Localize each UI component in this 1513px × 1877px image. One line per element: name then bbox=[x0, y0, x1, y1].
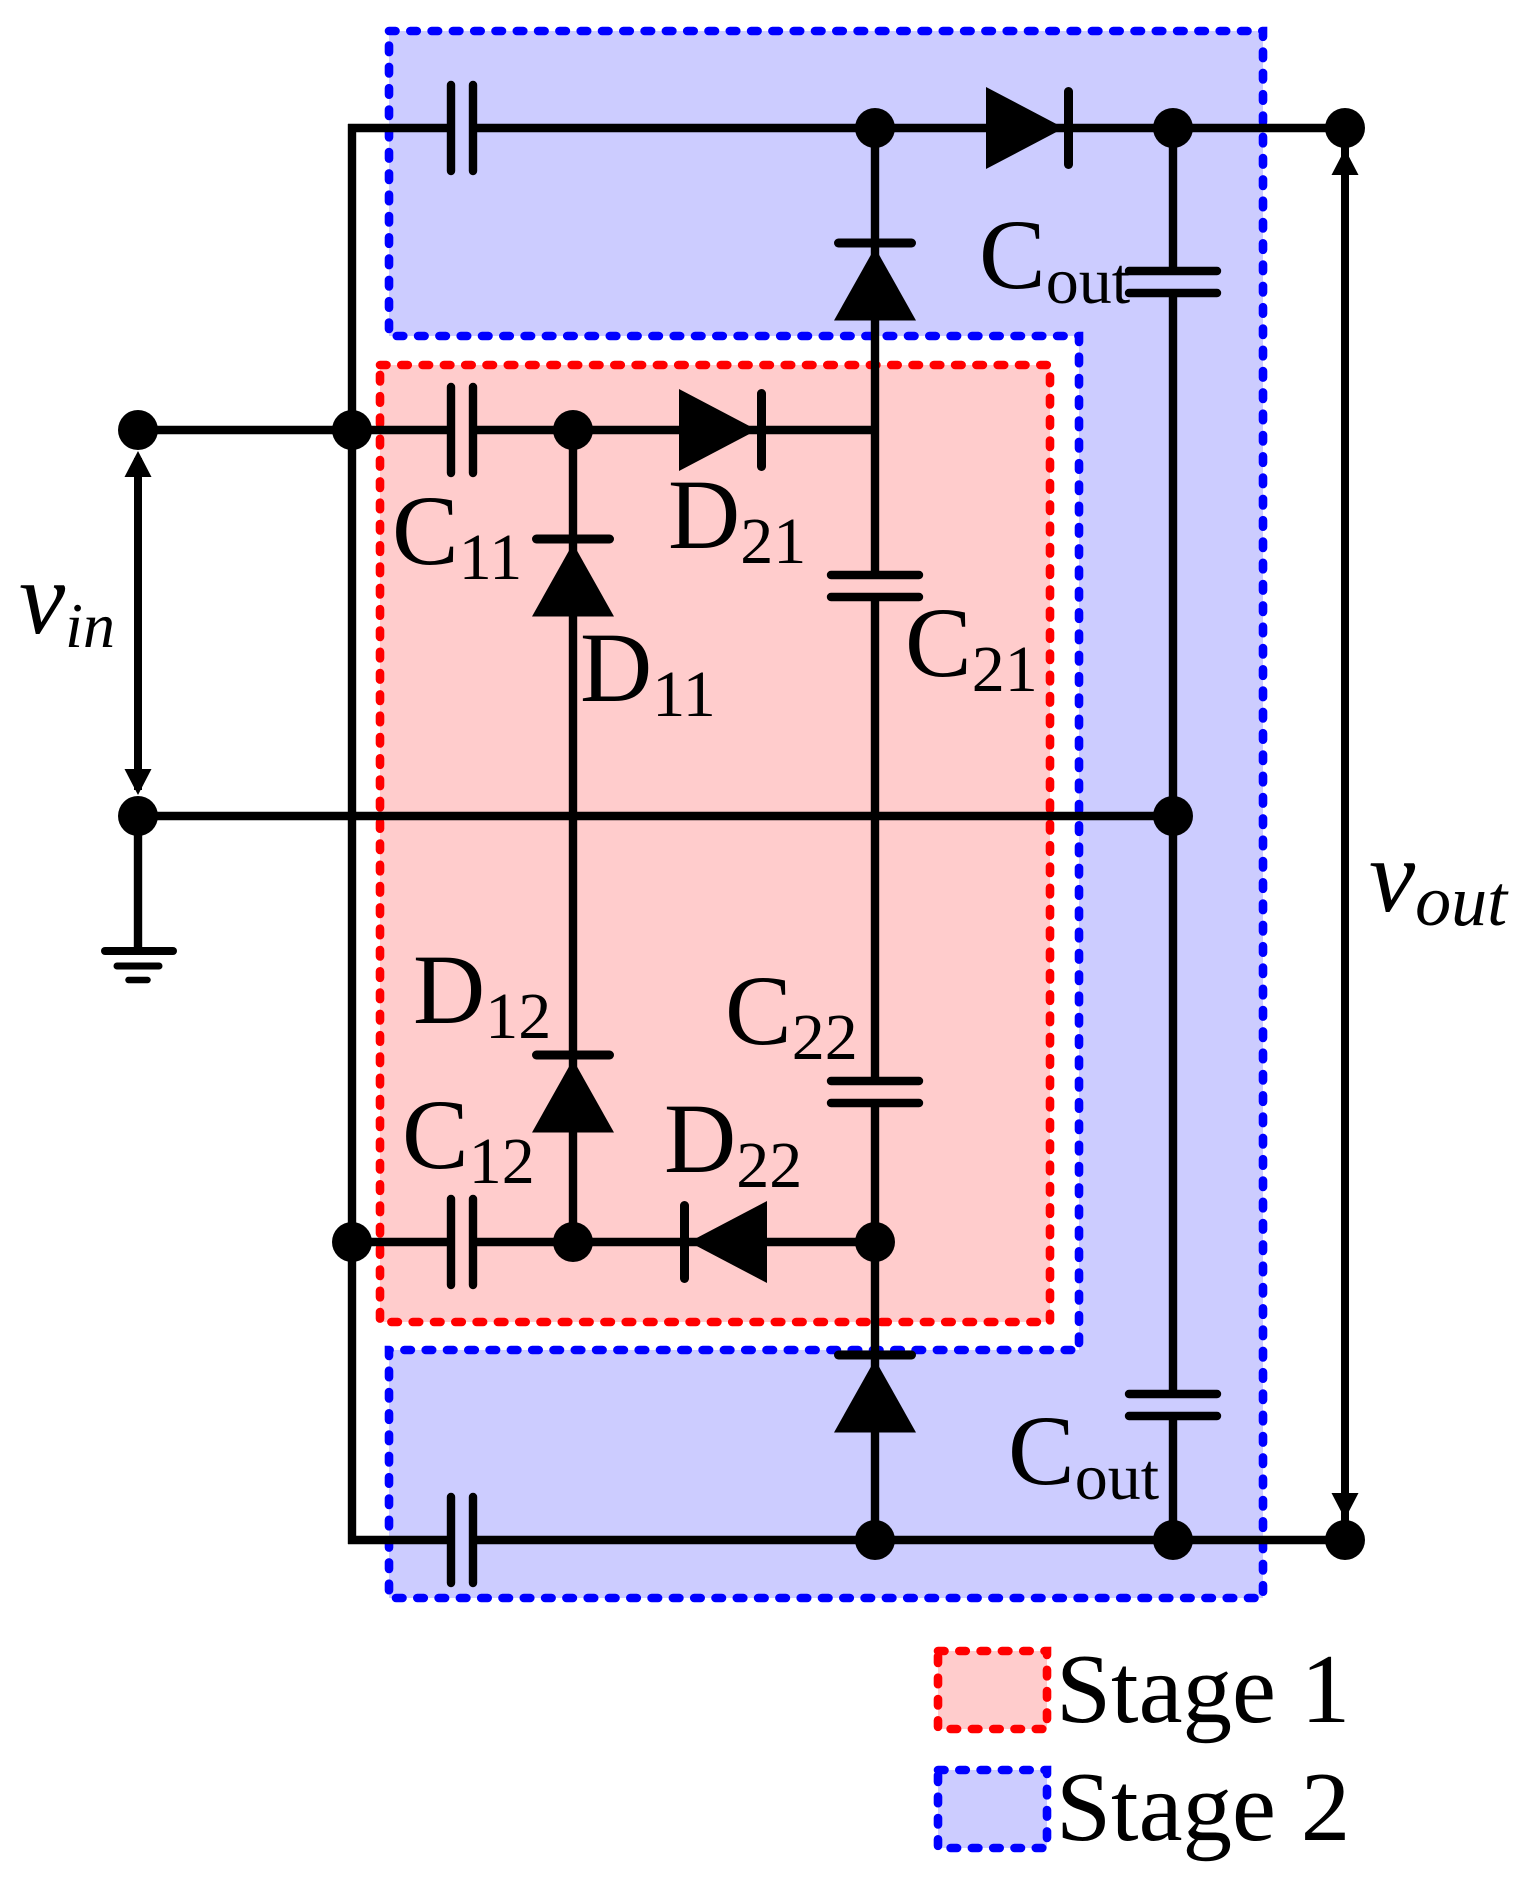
diode D11 bbox=[532, 539, 614, 617]
node C12-D12 junction bbox=[553, 1222, 593, 1262]
diode D12 bbox=[532, 1055, 614, 1133]
node bottom rail vout bbox=[1325, 1520, 1365, 1560]
wire input rail C11 to C21 line bbox=[477, 426, 875, 434]
diode stage2 top pump bbox=[834, 243, 916, 321]
node input bus top bbox=[332, 410, 372, 450]
svg-text:vout: vout bbox=[1369, 819, 1509, 941]
node top rail left bbox=[855, 108, 895, 148]
wire bottom inner rail C12 to node bbox=[477, 1238, 875, 1246]
vout measurement arrowheads bbox=[1332, 149, 1359, 1519]
ground bbox=[105, 816, 173, 980]
diode D22 bbox=[685, 1201, 768, 1283]
capacitor C11 bbox=[451, 387, 473, 473]
node bottom rail Cout bbox=[1153, 1520, 1193, 1560]
svg-text:Stage 1: Stage 1 bbox=[1056, 1635, 1350, 1744]
wire input rail left of C11 bbox=[138, 426, 447, 434]
node C22-D22 junction bbox=[855, 1222, 895, 1262]
label D12 bbox=[413, 934, 551, 1053]
capacitor C21 bbox=[831, 575, 919, 597]
legend stage 1 text bbox=[1056, 1635, 1350, 1744]
label C12 bbox=[402, 1079, 535, 1198]
vin measurement arrow bbox=[125, 451, 152, 795]
label Cout top bbox=[979, 199, 1130, 318]
legend stage 2 text bbox=[1056, 1753, 1350, 1862]
node vin top bbox=[118, 410, 158, 450]
wire bottom outer rail right of capacitor bbox=[477, 1536, 1345, 1544]
capacitor C12 bbox=[451, 1199, 473, 1285]
wire D11-D12 vertical bbox=[569, 430, 577, 1242]
label D21 bbox=[668, 459, 806, 578]
node top rail Cout bbox=[1153, 108, 1193, 148]
vout measurement line bbox=[1341, 128, 1349, 1540]
wire C21 branch upper bbox=[871, 128, 879, 575]
label C22 bbox=[725, 955, 858, 1074]
wire Cout branch middle bbox=[1169, 293, 1177, 1394]
wire Cout branch lower bbox=[1169, 1416, 1177, 1540]
node middle rail Cout bbox=[1153, 796, 1193, 836]
wire middle rail bbox=[138, 812, 1173, 820]
node top rail vout bbox=[1325, 108, 1365, 148]
stage 2 region (blue dashed) bbox=[389, 31, 1263, 1598]
diode D21 bbox=[679, 389, 762, 471]
label C21 bbox=[905, 587, 1038, 706]
svg-text:Stage 2: Stage 2 bbox=[1056, 1753, 1350, 1862]
label vin bbox=[19, 541, 115, 661]
diode stage2 bottom pump bbox=[834, 1355, 916, 1433]
label D22 bbox=[664, 1083, 802, 1202]
legend stage 1 swatch bbox=[938, 1651, 1047, 1729]
node C11-D11 junction bbox=[553, 410, 593, 450]
node vin bottom bbox=[118, 796, 158, 836]
capacitor stage2 top pump bbox=[451, 85, 473, 171]
node input bus bottom bbox=[332, 1222, 372, 1262]
label Cout bottom bbox=[1008, 1395, 1159, 1514]
label D11 bbox=[580, 612, 716, 731]
capacitor stage2 bottom pump bbox=[451, 1497, 473, 1583]
diode stage2 top output bbox=[986, 87, 1069, 169]
wire C22 branch lower bbox=[871, 1103, 879, 1540]
label C11 bbox=[392, 475, 522, 594]
wire top rail left of capacitor bbox=[348, 124, 447, 132]
node bottom rail left bbox=[855, 1520, 895, 1560]
svg-text:vin: vin bbox=[19, 541, 115, 661]
wire top rail right of capacitor bbox=[477, 124, 1345, 132]
wire bottom outer rail left of capacitor bbox=[348, 1536, 447, 1544]
label vout bbox=[1369, 819, 1509, 941]
wire bottom inner rail left of C12 bbox=[352, 1238, 447, 1246]
capacitor Cout top bbox=[1129, 271, 1217, 293]
legend stage 2 swatch bbox=[938, 1770, 1047, 1848]
wire Cout branch upper bbox=[1169, 128, 1177, 271]
wire C21-C22 branch middle bbox=[871, 597, 879, 1081]
wire left vertical bus bbox=[348, 124, 356, 1544]
capacitor C22 bbox=[831, 1081, 919, 1103]
stage 1 region (red dashed) bbox=[380, 365, 1050, 1322]
capacitor Cout bottom bbox=[1129, 1394, 1217, 1416]
